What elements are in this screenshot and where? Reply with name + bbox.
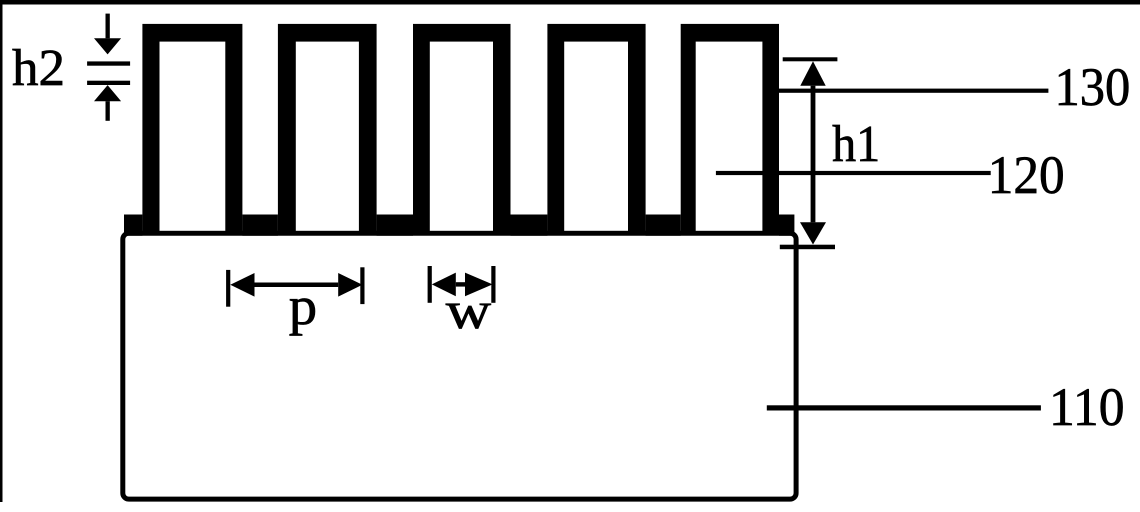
svg-text:130: 130	[1055, 57, 1131, 117]
svg-text:w: w	[446, 282, 491, 340]
svg-text:p: p	[289, 276, 317, 336]
svg-text:110: 110	[1049, 377, 1125, 437]
svg-text:h1: h1	[832, 116, 880, 173]
svg-text:120: 120	[988, 145, 1065, 205]
svg-text:h2: h2	[12, 40, 65, 97]
